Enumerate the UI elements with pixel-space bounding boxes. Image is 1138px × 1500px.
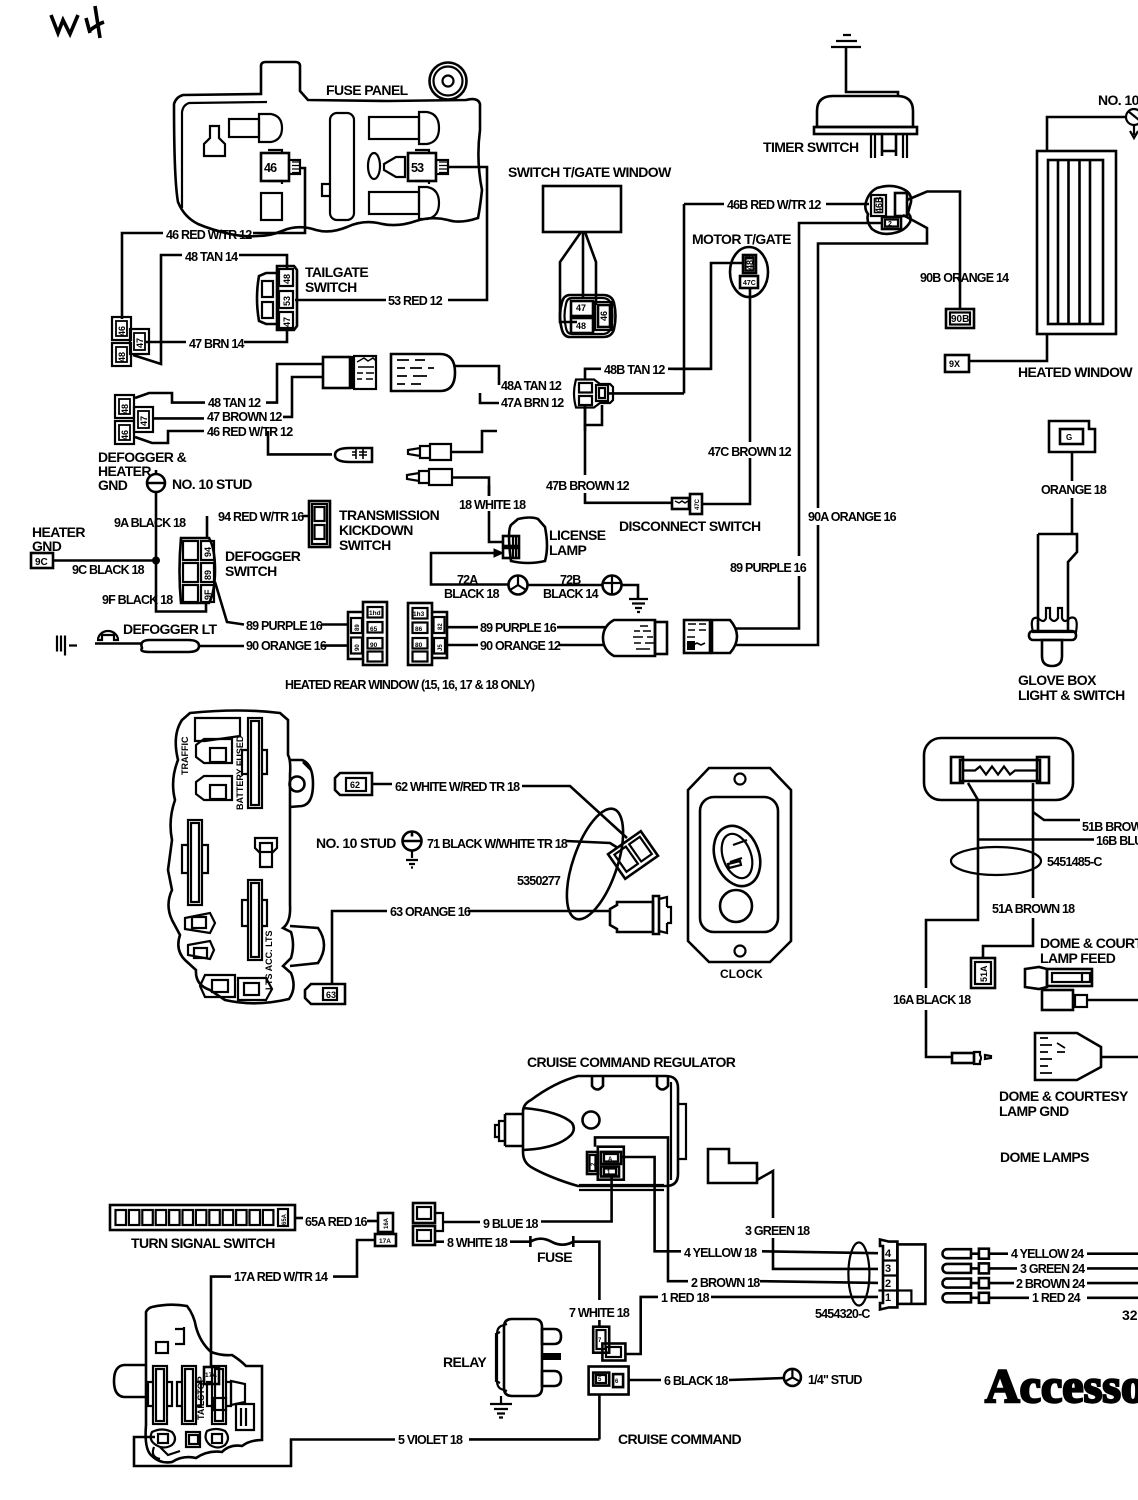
- svg-text:2 BROWN 24: 2 BROWN 24: [1016, 1277, 1085, 1291]
- svg-text:48: 48: [282, 274, 292, 284]
- svg-text:1hd: 1hd: [369, 610, 381, 617]
- svg-text:NO. 10: NO. 10: [1098, 92, 1138, 108]
- svg-text:KICKDOWN: KICKDOWN: [339, 522, 413, 538]
- svg-text:ORANGE 18: ORANGE 18: [1041, 483, 1107, 497]
- svg-text:TRAFFIC: TRAFFIC: [180, 736, 190, 775]
- svg-text:DOME & COURTESY: DOME & COURTESY: [1040, 935, 1138, 951]
- svg-text:89 PURPLE 16: 89 PURPLE 16: [730, 561, 807, 575]
- svg-text:NO. 10 STUD: NO. 10 STUD: [316, 835, 396, 851]
- svg-text:9X: 9X: [949, 359, 960, 369]
- svg-text:1/4" STUD: 1/4" STUD: [808, 1373, 862, 1387]
- svg-text:9F: 9F: [203, 589, 213, 600]
- svg-text:32: 32: [1122, 1307, 1138, 1323]
- svg-text:HEATED REAR WINDOW (15, 16, 17: HEATED REAR WINDOW (15, 16, 17 & 18 ONLY…: [285, 678, 535, 692]
- svg-text:51A: 51A: [979, 965, 989, 982]
- svg-text:4 YELLOW 24: 4 YELLOW 24: [1011, 1247, 1084, 1261]
- svg-text:FUSE: FUSE: [537, 1249, 572, 1265]
- svg-text:46B RED W/TR 12: 46B RED W/TR 12: [727, 198, 821, 212]
- svg-text:CLOCK: CLOCK: [720, 967, 763, 981]
- svg-text:4: 4: [885, 1248, 892, 1260]
- svg-text:18 WHITE 18: 18 WHITE 18: [459, 498, 526, 512]
- svg-text:CRUISE COMMAND REGULATOR: CRUISE COMMAND REGULATOR: [527, 1054, 736, 1070]
- svg-text:90 ORANGE 16: 90 ORANGE 16: [246, 639, 327, 653]
- svg-text:47: 47: [282, 317, 292, 327]
- svg-text:94: 94: [203, 547, 213, 557]
- svg-text:9 BLUE 18: 9 BLUE 18: [483, 1217, 538, 1231]
- svg-text:HEATED WINDOW: HEATED WINDOW: [1018, 364, 1133, 380]
- svg-text:47: 47: [576, 303, 586, 313]
- svg-text:9A BLACK 18: 9A BLACK 18: [114, 516, 186, 530]
- svg-text:90B ORANGE 14: 90B ORANGE 14: [920, 271, 1009, 285]
- svg-text:1 RED 18: 1 RED 18: [661, 1291, 710, 1305]
- svg-text:BATTERY FUSED: BATTERY FUSED: [235, 735, 245, 810]
- svg-text:1h3: 1h3: [413, 611, 425, 618]
- svg-text:GLOVE BOX: GLOVE BOX: [1018, 672, 1097, 688]
- svg-text:2: 2: [885, 1278, 891, 1290]
- svg-text:5451485-C: 5451485-C: [1047, 855, 1102, 869]
- svg-text:46: 46: [120, 430, 130, 440]
- svg-text:47C: 47C: [743, 280, 756, 287]
- svg-text:8 WHITE 18: 8 WHITE 18: [447, 1236, 508, 1250]
- svg-text:DEFOGGER: DEFOGGER: [225, 548, 301, 564]
- svg-text:9C BLACK 18: 9C BLACK 18: [72, 563, 145, 577]
- svg-text:9F BLACK 18: 9F BLACK 18: [102, 593, 173, 607]
- svg-text:47C BROWN 12: 47C BROWN 12: [708, 445, 792, 459]
- svg-text:65A RED 16: 65A RED 16: [305, 1215, 368, 1229]
- svg-text:1: 1: [885, 1292, 891, 1304]
- svg-text:I TS ACC. LTS: I TS ACC. LTS: [264, 931, 274, 991]
- svg-text:LAMP FEED: LAMP FEED: [1040, 950, 1116, 966]
- svg-text:4 YELLOW 18: 4 YELLOW 18: [684, 1246, 757, 1260]
- svg-text:90: 90: [370, 642, 378, 649]
- svg-text:BLACK 14: BLACK 14: [543, 587, 599, 601]
- svg-text:46 RED W/TR 12: 46 RED W/TR 12: [166, 228, 252, 242]
- svg-text:RELAY: RELAY: [443, 1354, 487, 1370]
- svg-text:72A: 72A: [457, 573, 478, 587]
- svg-text:82: 82: [438, 623, 444, 630]
- svg-text:53: 53: [411, 161, 424, 175]
- svg-text:89 PURPLE 16: 89 PURPLE 16: [246, 619, 323, 633]
- svg-text:47C: 47C: [695, 498, 701, 510]
- svg-text:71 BLACK W/WHITE TR 18: 71 BLACK W/WHITE TR 18: [427, 837, 568, 851]
- svg-text:48: 48: [117, 352, 127, 362]
- svg-text:86: 86: [415, 626, 423, 633]
- svg-text:TURN SIGNAL SWITCH: TURN SIGNAL SWITCH: [131, 1235, 275, 1251]
- svg-text:J5: J5: [438, 644, 444, 651]
- svg-text:5 VIOLET 18: 5 VIOLET 18: [398, 1433, 463, 1447]
- svg-text:53: 53: [282, 296, 292, 306]
- svg-text:47 BROWN 12: 47 BROWN 12: [207, 410, 282, 424]
- svg-text:TRANSMISSION: TRANSMISSION: [339, 507, 440, 523]
- svg-text:SWITCH: SWITCH: [339, 537, 391, 553]
- svg-text:46: 46: [117, 326, 127, 336]
- svg-text:NO. 10 STUD: NO. 10 STUD: [172, 476, 252, 492]
- svg-text:SWITCH T/GATE WINDOW: SWITCH T/GATE WINDOW: [508, 164, 672, 180]
- svg-text:BLACK 18: BLACK 18: [444, 587, 500, 601]
- svg-text:2 BROWN 18: 2 BROWN 18: [691, 1276, 760, 1290]
- svg-text:LAMP: LAMP: [549, 542, 587, 558]
- svg-text:51B BROWN 18: 51B BROWN 18: [1082, 820, 1138, 834]
- svg-text:89: 89: [355, 624, 361, 631]
- svg-text:3: 3: [885, 1263, 891, 1275]
- svg-text:MOTOR T/GATE: MOTOR T/GATE: [692, 231, 791, 247]
- svg-text:65A: 65A: [282, 1213, 288, 1225]
- svg-text:48B: 48B: [745, 253, 755, 270]
- svg-text:DEFOGGER LT: DEFOGGER LT: [123, 621, 218, 637]
- svg-text:TAILSTOP: TAILSTOP: [196, 1376, 206, 1420]
- svg-text:46 RED W/TR 12: 46 RED W/TR 12: [207, 425, 293, 439]
- svg-text:48: 48: [120, 404, 130, 414]
- svg-text:48: 48: [576, 321, 586, 331]
- svg-text:LICENSE: LICENSE: [549, 527, 606, 543]
- svg-text:65: 65: [370, 626, 378, 633]
- svg-text:5454320-C: 5454320-C: [815, 1307, 870, 1321]
- svg-text:53 RED 12: 53 RED 12: [388, 294, 443, 308]
- svg-text:17A RED W/TR 14: 17A RED W/TR 14: [234, 1270, 328, 1284]
- svg-text:A: A: [608, 1157, 613, 1163]
- svg-text:SWITCH: SWITCH: [225, 563, 277, 579]
- svg-text:FUSE PANEL: FUSE PANEL: [326, 82, 409, 98]
- svg-text:47: 47: [135, 338, 145, 348]
- svg-text:CRUISE COMMAND: CRUISE COMMAND: [618, 1431, 742, 1447]
- svg-text:63: 63: [326, 990, 336, 1000]
- svg-text:TAILGATE: TAILGATE: [305, 264, 368, 280]
- svg-text:DISCONNECT SWITCH: DISCONNECT SWITCH: [619, 518, 761, 534]
- svg-text:47 BRN 14: 47 BRN 14: [189, 337, 244, 351]
- svg-text:48B TAN 12: 48B TAN 12: [604, 363, 665, 377]
- svg-text:G: G: [1066, 433, 1072, 442]
- svg-text:48A TAN 12: 48A TAN 12: [501, 379, 562, 393]
- svg-text:48 TAN 14: 48 TAN 14: [185, 250, 238, 264]
- svg-text:47A BRN 12: 47A BRN 12: [501, 396, 564, 410]
- svg-text:TIMER SWITCH: TIMER SWITCH: [763, 139, 859, 155]
- svg-text:72B: 72B: [560, 573, 581, 587]
- svg-text:SWITCH: SWITCH: [305, 279, 357, 295]
- svg-text:Accesso: Accesso: [985, 1360, 1138, 1413]
- svg-text:DOME & COURTESY: DOME & COURTESY: [999, 1088, 1129, 1104]
- svg-text:3 GREEN 24: 3 GREEN 24: [1020, 1262, 1085, 1276]
- svg-text:48 TAN 12: 48 TAN 12: [208, 396, 261, 410]
- svg-text:94 RED W/TR 16: 94 RED W/TR 16: [218, 510, 304, 524]
- svg-text:DOME LAMPS: DOME LAMPS: [1000, 1149, 1089, 1165]
- svg-text:7 WHITE 18: 7 WHITE 18: [569, 1306, 630, 1320]
- svg-text:63 ORANGE 16: 63 ORANGE 16: [390, 905, 471, 919]
- svg-text:LAMP GND: LAMP GND: [999, 1103, 1069, 1119]
- svg-text:46: 46: [264, 161, 277, 175]
- svg-text:5350277: 5350277: [517, 874, 561, 888]
- svg-text:90A ORANGE 16: 90A ORANGE 16: [808, 510, 897, 524]
- svg-text:62: 62: [350, 780, 360, 790]
- svg-text:80: 80: [415, 642, 423, 649]
- svg-text:9C: 9C: [35, 557, 48, 568]
- svg-text:17A: 17A: [205, 1372, 217, 1379]
- svg-text:62 WHITE W/RED TR 18: 62 WHITE W/RED TR 18: [395, 780, 520, 794]
- svg-text:51A BROWN 18: 51A BROWN 18: [992, 902, 1075, 916]
- svg-text:16A: 16A: [384, 1217, 390, 1229]
- svg-text:89 PURPLE 16: 89 PURPLE 16: [480, 621, 557, 635]
- svg-text:1 RED 24: 1 RED 24: [1032, 1291, 1081, 1305]
- svg-text:GND: GND: [98, 477, 128, 493]
- svg-text:3 GREEN 18: 3 GREEN 18: [745, 1224, 810, 1238]
- svg-text:16A BLACK 18: 16A BLACK 18: [893, 993, 971, 1007]
- svg-text:46: 46: [599, 311, 609, 321]
- svg-text:16B BLUE 18: 16B BLUE 18: [1096, 834, 1138, 848]
- svg-text:LIGHT & SWITCH: LIGHT & SWITCH: [1018, 687, 1125, 703]
- svg-text:89: 89: [203, 570, 213, 580]
- svg-text:90 ORANGE 12: 90 ORANGE 12: [480, 639, 561, 653]
- svg-text:2: 2: [888, 221, 892, 228]
- svg-text:47: 47: [139, 416, 149, 426]
- svg-text:47B BROWN 12: 47B BROWN 12: [546, 479, 630, 493]
- svg-text:46B: 46B: [874, 196, 884, 213]
- svg-text:17A: 17A: [379, 1238, 391, 1245]
- svg-text:90B: 90B: [951, 314, 969, 325]
- svg-text:6 BLACK 18: 6 BLACK 18: [664, 1374, 728, 1388]
- svg-text:90: 90: [355, 644, 361, 651]
- svg-text:GND: GND: [32, 538, 62, 554]
